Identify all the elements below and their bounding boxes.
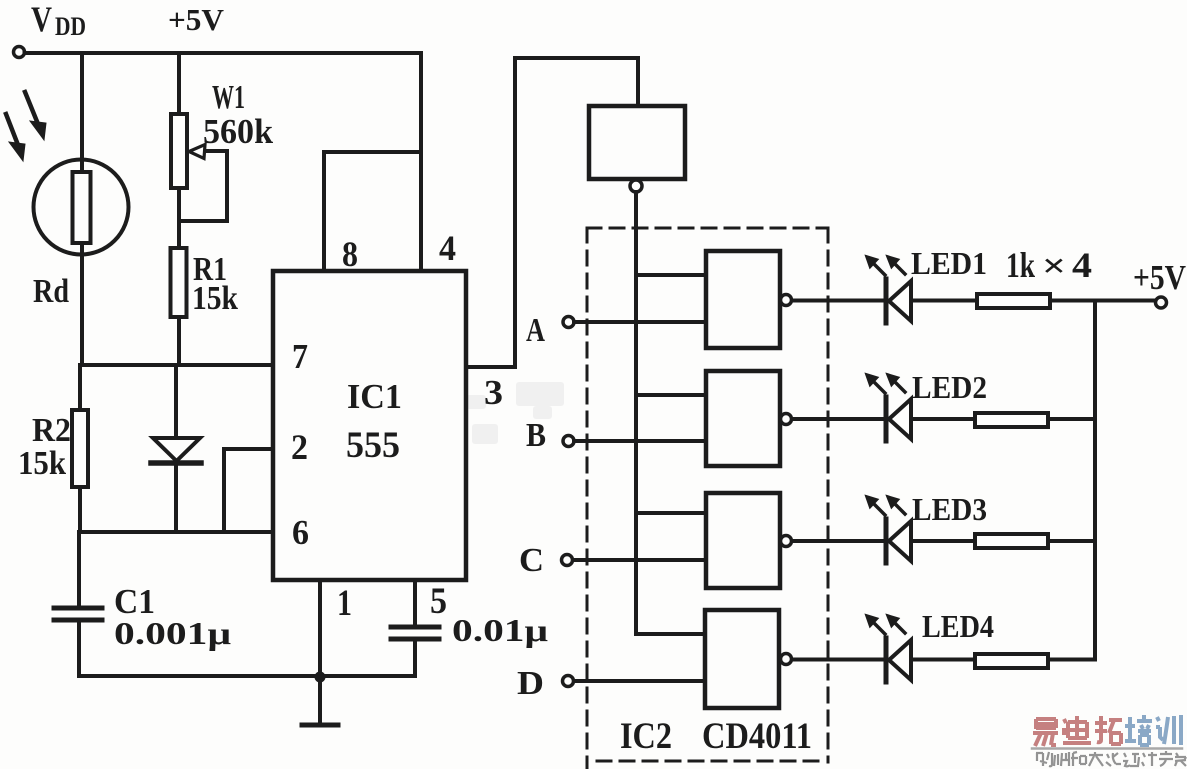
IC U1 555 body <box>273 271 466 580</box>
svg-text:555: 555 <box>346 425 400 466</box>
svg-text:7: 7 <box>292 337 308 376</box>
resistor row4 <box>975 654 1095 668</box>
svg-text:DD: DD <box>55 12 86 41</box>
LED1 <box>792 256 977 323</box>
watermark big text <box>1033 715 1181 746</box>
terminal A <box>563 317 706 328</box>
ghost watermark smudge <box>466 382 564 444</box>
wire G4 upper input <box>636 632 705 636</box>
svg-text:0.001μ: 0.001μ <box>114 615 231 651</box>
capacitor C1 <box>54 532 102 676</box>
svg-text:D: D <box>517 665 544 702</box>
label R2 15k <box>18 412 71 482</box>
wire G2 upper input <box>636 393 706 397</box>
svg-text:4: 4 <box>1072 245 1092 285</box>
svg-text:LED4: LED4 <box>922 608 994 644</box>
svg-text:LED2: LED2 <box>912 369 987 405</box>
label VDD <box>31 0 86 41</box>
svg-text:R2: R2 <box>32 412 71 449</box>
resistor row3 <box>975 534 1095 548</box>
resistor row1 1k <box>977 294 1155 308</box>
svg-text:6: 6 <box>292 513 309 552</box>
junction dot ground <box>315 672 326 683</box>
watermark underline <box>1032 747 1182 750</box>
NAND gate G3 <box>706 493 792 588</box>
svg-text:CD4011: CD4011 <box>702 716 812 757</box>
svg-text:IC2: IC2 <box>620 716 672 757</box>
svg-text:8: 8 <box>342 234 358 274</box>
svg-text:V: V <box>31 0 52 39</box>
capacitor C2 <box>391 627 439 676</box>
label W1 560k <box>203 79 274 151</box>
light arrow 1 <box>25 92 46 140</box>
resistor row2 <box>975 413 1095 427</box>
wire bottom rail <box>79 674 415 678</box>
potentiometer W1 <box>171 114 227 248</box>
svg-text:W1: W1 <box>212 79 245 116</box>
photoresistor Rd <box>34 160 129 366</box>
svg-text:LED3: LED3 <box>912 491 987 527</box>
LED4 <box>792 615 975 682</box>
wire G3 upper input <box>636 511 706 515</box>
box driver <box>589 106 685 192</box>
svg-text:1k: 1k <box>1006 245 1035 285</box>
watermark small text <box>1036 751 1186 766</box>
wire G1 upper input <box>636 273 706 277</box>
NAND gate G1 <box>706 251 792 348</box>
wire W1 branch top <box>177 53 181 114</box>
NAND gate G4 <box>705 610 792 708</box>
svg-text:0.01μ: 0.01μ <box>452 612 548 648</box>
terminal D <box>563 676 706 687</box>
label R1 15k <box>192 251 238 317</box>
svg-text:Rd: Rd <box>33 273 69 310</box>
pin 4 wire <box>419 53 423 271</box>
svg-text:A: A <box>526 312 545 349</box>
pin 1 wire <box>318 580 322 676</box>
svg-text:15k: 15k <box>192 280 238 317</box>
NAND gate G2 <box>706 371 792 466</box>
svg-text:15k: 15k <box>18 445 66 482</box>
light arrow 2 <box>6 114 25 161</box>
resistor R2 <box>72 365 88 532</box>
terminal C <box>562 555 707 566</box>
diode D1 <box>151 365 201 532</box>
wire bus vertical <box>634 192 638 634</box>
svg-text:5: 5 <box>430 581 447 622</box>
LED3 <box>792 496 975 563</box>
pin 5 wire <box>413 580 417 625</box>
svg-text:C: C <box>519 542 544 579</box>
wire +5V top rail <box>25 51 422 55</box>
svg-text:2: 2 <box>291 427 308 467</box>
ground <box>302 677 338 725</box>
+5V right terminal <box>1156 297 1167 308</box>
svg-text:LED1: LED1 <box>911 245 987 281</box>
svg-text:560k: 560k <box>203 112 274 151</box>
svg-text:B: B <box>526 417 546 454</box>
svg-text:3: 3 <box>484 373 503 412</box>
svg-text:1: 1 <box>337 583 352 624</box>
svg-text:IC1: IC1 <box>347 377 402 416</box>
svg-text:4: 4 <box>439 228 456 268</box>
wire pin7 line <box>80 363 273 367</box>
dashed box IC2 <box>587 228 828 769</box>
svg-text:×: × <box>1042 248 1066 285</box>
svg-text:+5V: +5V <box>168 2 225 37</box>
terminal B <box>563 436 706 447</box>
wire right bus <box>1093 301 1097 660</box>
LED2 <box>792 374 975 441</box>
wire pin2 step <box>224 449 273 532</box>
pin 8 wire <box>324 152 421 271</box>
resistor R1 <box>171 248 187 365</box>
node VDD input terminal <box>14 47 25 58</box>
wire Rd branch upper <box>80 53 84 172</box>
wire pin6 line <box>80 530 273 534</box>
pin 3 wire <box>466 58 638 367</box>
svg-text:+5V: +5V <box>1133 258 1186 297</box>
